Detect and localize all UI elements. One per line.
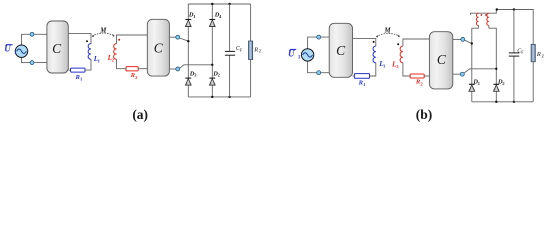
wire: RZ bottom leg (b)	[532, 62, 534, 102]
wire: C2 out bottom stub (b)	[453, 73, 461, 75]
junction dot top rail D4 (a)	[211, 3, 213, 5]
node: C1 input bottom (a)	[30, 61, 34, 65]
polarity dot La (b)	[481, 14, 483, 16]
node: C2 output bottom (b)	[460, 72, 464, 76]
diode D4 (a)	[209, 11, 222, 26]
mutual coupling M arrow (a)	[92, 27, 115, 37]
converter block C1 (a)	[47, 21, 68, 73]
wire: C2 out top stub (b)	[453, 38, 461, 40]
wire: node to bridge left leg diagonal (a)	[180, 38, 189, 41]
wire: top rail (b)	[496, 10, 533, 45]
svg-text:R: R	[253, 46, 258, 53]
diode D1 (a)	[185, 11, 195, 26]
node: C2 output top (b)	[461, 37, 465, 41]
wire: D1 to bottom rail (b)	[471, 91, 473, 102]
capacitor CF (b)	[509, 48, 524, 56]
junction dot bridge left mid (a)	[187, 40, 189, 42]
svg-text:C: C	[154, 41, 164, 56]
wire: La bottom step to left leg (b)	[472, 26, 479, 85]
label U1 (b)	[288, 48, 301, 60]
wire: bottom rail (b)	[472, 101, 533, 103]
svg-text:1: 1	[80, 77, 83, 82]
svg-text:1: 1	[98, 58, 101, 63]
resistor RZ load (a)	[249, 41, 262, 60]
wire: RZ leg (a)	[250, 4, 252, 97]
svg-text:1: 1	[383, 64, 386, 69]
junction dot bottom rail CF (a)	[228, 96, 230, 98]
wire: node diagonal to left leg (b)	[465, 40, 472, 43]
converter block C2 (b)	[429, 32, 452, 89]
wire: node to bridge right leg (a)	[180, 65, 213, 68]
junction dot bridge right mid (a)	[211, 64, 213, 66]
capacitor CF (a)	[225, 46, 243, 55]
node: C1 input top (a)	[30, 32, 34, 36]
junction dot top rail bus (b)	[496, 8, 498, 10]
svg-text:F: F	[521, 50, 524, 55]
svg-text:1: 1	[298, 55, 301, 61]
inductor L1 (a)	[88, 44, 100, 64]
svg-text:2: 2	[396, 64, 399, 69]
wire: L2 bottom to R2 (a)	[117, 59, 127, 68]
filter inductor Lb (b)	[487, 13, 489, 25]
label U1 (a)	[4, 44, 17, 56]
resistor RZ load (b)	[531, 44, 544, 62]
wire: bridge bottom rail (a)	[188, 96, 250, 98]
svg-text:1: 1	[478, 81, 480, 86]
polarity dot Lb (b)	[485, 14, 487, 16]
wire: coil bus and stub to top rail (b)	[471, 10, 497, 16]
svg-text:3: 3	[194, 73, 197, 78]
diode D2 (a)	[209, 70, 219, 85]
wire: node diagonal to right leg (b)	[464, 69, 496, 73]
diode D2 (b)	[493, 79, 504, 92]
wire: CF leg (b)	[513, 10, 515, 102]
wire: R2 to C2 (b)	[424, 75, 429, 77]
caption (a)	[132, 107, 148, 122]
wire: bridge top rail (a)	[188, 3, 250, 5]
filter inductor La (b)	[476, 13, 478, 25]
wire: source U1 top to node and C1 (b)	[308, 37, 330, 49]
svg-text:1: 1	[14, 50, 17, 56]
junction dot bottom rail CF (b)	[513, 101, 515, 103]
wire: R2 to C2 (a)	[138, 68, 147, 70]
diode D3 (a)	[185, 70, 197, 85]
inductor L2 (b)	[391, 46, 403, 69]
voltage source U1 (b)	[301, 49, 313, 61]
polarity dot L2 (a)	[118, 39, 120, 41]
resistor R2 (a)	[126, 67, 138, 80]
wire: C2 out bottom stub (a)	[169, 68, 176, 70]
node: C2 output top (a)	[176, 35, 180, 39]
polarity dot L2 (b)	[397, 43, 399, 45]
junction dot bottom rail D2 (b)	[495, 101, 497, 103]
junction dot right leg (b)	[495, 68, 497, 70]
wire: bridge left leg (a)	[187, 4, 189, 97]
wire: C1 out bottom to R1 (b)	[353, 75, 355, 77]
svg-text:Z: Z	[259, 49, 262, 54]
svg-text:Z: Z	[542, 54, 545, 59]
inductor L2 (a)	[107, 44, 117, 63]
svg-text:(b): (b)	[416, 107, 433, 122]
wire: Lb bottom step to right leg (b)	[489, 26, 496, 85]
wire: R1 to L1 bottom (b)	[370, 63, 376, 76]
wire: C1 out bottom to R1 (a)	[68, 69, 70, 71]
resistor R1 (b)	[354, 74, 369, 87]
node: C1 input bottom (b)	[317, 71, 321, 75]
svg-text:M: M	[99, 27, 107, 34]
converter block C2 (a)	[147, 19, 169, 76]
polarity dot L1 (b)	[373, 41, 375, 43]
svg-text:M: M	[384, 28, 392, 35]
svg-text:1: 1	[363, 82, 366, 87]
svg-text:1: 1	[193, 14, 195, 19]
wire: bridge right leg (a)	[211, 4, 213, 97]
svg-text:2: 2	[135, 75, 138, 80]
node: C2 output bottom (a)	[176, 67, 180, 71]
mutual coupling M arrow (b)	[376, 28, 400, 38]
wire: D2 to bottom rail (b)	[495, 91, 497, 102]
junction dot top rail CF (b)	[513, 8, 515, 10]
wire: L2 bottom to R2 (b)	[403, 63, 410, 76]
svg-text:C: C	[437, 52, 447, 67]
wire: L2 top to C2 (b)	[403, 39, 432, 46]
caption (b)	[416, 107, 433, 122]
junction dot left leg (b)	[471, 42, 473, 44]
svg-text:R: R	[536, 51, 541, 58]
junction dot top rail CF (a)	[228, 3, 230, 5]
svg-text:4: 4	[219, 14, 222, 19]
converter block C1 (b)	[329, 23, 352, 77]
svg-text:(a): (a)	[132, 107, 148, 122]
svg-text:2: 2	[502, 81, 504, 86]
wire: C2 out top stub (a)	[169, 36, 176, 38]
inductor L1 (b)	[373, 46, 386, 68]
wire: source U1 top to node and C1 (a)	[22, 34, 47, 45]
svg-text:C: C	[52, 41, 62, 56]
junction dot bottom rail D2 (a)	[211, 96, 213, 98]
svg-text:C: C	[336, 43, 346, 58]
wire: source U1 bottom to node and C1 (b)	[308, 61, 330, 73]
wire: source U1 bottom to node and C1 (a)	[22, 57, 47, 62]
node: C1 input top (b)	[317, 35, 321, 39]
svg-text:F: F	[240, 47, 243, 52]
wire: C1 out top to L1 top (a)	[68, 34, 91, 44]
polarity dot L1 (a)	[86, 40, 88, 42]
wire: C1 out top to L1 top (b)	[353, 39, 376, 47]
svg-text:2: 2	[420, 81, 423, 86]
svg-text:2: 2	[218, 73, 220, 78]
resistor R2 (b)	[410, 74, 424, 86]
wire: L2 top to C2 (a)	[117, 35, 148, 44]
diode D1 (b)	[469, 79, 480, 92]
wire: R1 to L1 bottom (a)	[85, 59, 91, 70]
voltage source U1 (a)	[15, 45, 27, 57]
wire: CF leg (a)	[229, 4, 231, 97]
resistor R1 (a)	[71, 68, 86, 81]
